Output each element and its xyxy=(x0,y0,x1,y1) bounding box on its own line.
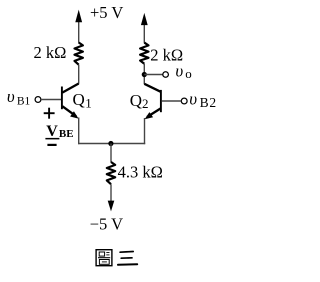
arrow to +5V left xyxy=(75,10,82,23)
svg-text:υ: υ xyxy=(175,62,183,81)
wire emitter Q1 down xyxy=(78,118,80,145)
node emitter junction dot xyxy=(108,141,113,146)
node vo junction dot xyxy=(142,72,147,77)
svg-text:−5 V: −5 V xyxy=(90,214,123,233)
wire to -5V xyxy=(110,184,112,203)
resistor RC1 2k left xyxy=(75,43,83,65)
VBE underline xyxy=(45,138,59,140)
svg-text:V: V xyxy=(46,123,58,140)
wire left collector xyxy=(78,65,80,84)
wire right supply shaft xyxy=(143,19,145,43)
wire right collector xyxy=(143,64,145,84)
svg-text:υ: υ xyxy=(189,89,197,108)
caption glyph tu (figure) xyxy=(96,250,112,266)
terminal vB2 xyxy=(181,98,187,104)
svg-text:B2: B2 xyxy=(200,95,217,110)
wire emitter bus xyxy=(78,143,145,145)
wire base Q2 xyxy=(162,100,181,102)
svg-text:υ: υ xyxy=(7,87,15,106)
wire vo tap xyxy=(144,74,162,76)
transistor Q1 xyxy=(62,84,79,117)
svg-text:+5 V: +5 V xyxy=(90,3,123,22)
terminal vB1 xyxy=(35,97,41,103)
svg-text:1: 1 xyxy=(85,95,92,110)
svg-text:2: 2 xyxy=(142,96,149,111)
arrow to -5V xyxy=(108,201,115,212)
svg-text:4.3 kΩ: 4.3 kΩ xyxy=(118,163,163,182)
terminal vo xyxy=(163,72,169,78)
resistor RC2 2k right xyxy=(140,43,148,64)
wire emitter Q2 down xyxy=(144,118,146,144)
svg-text:o: o xyxy=(185,66,192,81)
transistor Q2 xyxy=(144,84,161,117)
resistor RE 4.3k xyxy=(107,162,115,184)
Q2 emitter arrowhead xyxy=(145,112,154,119)
svg-text:B1: B1 xyxy=(17,96,31,108)
caption glyph san (three) xyxy=(118,252,137,265)
svg-text:2 kΩ: 2 kΩ xyxy=(34,43,67,62)
Q1 emitter arrowhead xyxy=(70,111,78,118)
svg-text:Q: Q xyxy=(73,90,85,109)
arrow to +5V right xyxy=(141,13,148,25)
svg-text:BE: BE xyxy=(59,128,74,140)
wire tail xyxy=(110,144,112,163)
wire left supply shaft xyxy=(78,16,80,43)
wire base Q1 xyxy=(41,99,61,101)
minus sign VBE polarity xyxy=(47,144,56,146)
plus sign VBE polarity xyxy=(44,108,55,119)
svg-text:Q: Q xyxy=(130,91,142,110)
